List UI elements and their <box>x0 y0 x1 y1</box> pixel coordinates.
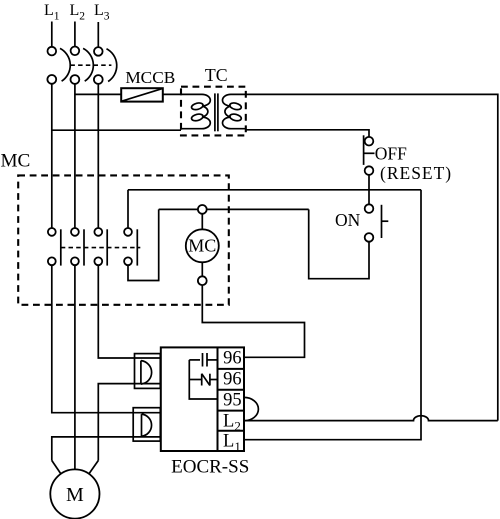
disconnect switch pole 2 terminals <box>71 47 80 84</box>
svg-text:MC: MC <box>188 236 216 256</box>
svg-text:MCCB: MCCB <box>125 68 175 87</box>
wire TC secondary top to right rail <box>246 94 498 420</box>
wire coil bottom to EOCR 96 terminal <box>202 285 304 357</box>
disconnect switch pole 3 terminals <box>94 47 103 84</box>
wire TC primary return to L1 <box>52 129 181 131</box>
jumper 95 to L2 (arc) <box>244 397 258 420</box>
wire terminal to coil <box>201 214 203 231</box>
disconnect switch pole 3 blade arc <box>107 49 117 82</box>
EOCR terminal box dividers <box>218 369 245 431</box>
pushbutton ON (NO) terminals <box>365 204 374 241</box>
pushbutton ON movable bar <box>381 205 383 238</box>
contactor MC main contact pole 2 <box>71 228 84 266</box>
wire CT1 return toward motor <box>98 384 161 461</box>
svg-text:96: 96 <box>223 348 242 368</box>
wire motor leg right <box>89 461 98 474</box>
disconnect switch pole 1 blade arc <box>60 48 70 81</box>
contactor MC main contact pole 1 <box>48 228 61 266</box>
wire MCCB to TC primary <box>163 93 181 95</box>
wire rail down to aux contact top <box>127 190 129 228</box>
coil MC (contactor coil) <box>186 229 219 262</box>
wire coil to bottom terminal <box>201 262 203 276</box>
pushbutton OFF (NC) terminals <box>365 137 374 175</box>
wire ON bottom to node B <box>309 209 369 278</box>
svg-text:96: 96 <box>223 370 242 390</box>
wire L1 phase down to MC contact <box>51 84 53 228</box>
current transformer CT1 body <box>135 354 161 389</box>
EOCR internal NC contact to 96 <box>189 374 217 386</box>
svg-text:95: 95 <box>223 391 242 411</box>
pushbutton OFF actuator tick <box>364 152 375 154</box>
disconnect switch mechanical link (dashed) <box>70 64 111 66</box>
wire motor leg left <box>52 461 61 474</box>
transformer TC enclosure (dashed) <box>181 87 246 136</box>
contactor MC mechanical link (dashed) <box>61 247 141 249</box>
current transformer CT2 body <box>133 408 160 441</box>
pushbutton OFF movable bar <box>363 135 365 165</box>
wire L2 tap to MCCB <box>75 93 121 95</box>
wire CT2 return toward motor <box>52 437 161 461</box>
wire L2 phase down to MC contact <box>74 84 76 228</box>
wire aux contact bottom to node B <box>128 209 159 280</box>
transformer TC primary winding <box>181 94 210 128</box>
disconnect switch pole 2 blade arc <box>83 48 93 81</box>
wire L1 terminal riser to control rail <box>244 190 421 440</box>
svg-text:OFF: OFF <box>375 143 407 163</box>
contactor MC enclosure (dashed) <box>18 175 229 304</box>
node coil top terminal <box>198 205 207 214</box>
relay EOCR-SS body <box>161 347 244 451</box>
svg-text:MC: MC <box>1 150 31 171</box>
wire L3 down through CT1 <box>98 265 161 358</box>
svg-text:TC: TC <box>205 65 228 85</box>
pushbutton ON actuator tick <box>382 220 389 222</box>
wire node B horizontal (coil top net) <box>159 208 309 210</box>
transformer TC core <box>215 93 218 131</box>
contactor MC main contact pole 3 <box>94 228 107 266</box>
transformer TC secondary winding <box>223 94 246 128</box>
EOCR terminal column divider <box>217 347 219 451</box>
wire L2 down to motor <box>74 265 76 469</box>
wire control rail node A <box>128 189 421 191</box>
wire OFF bottom to control rail <box>368 175 370 190</box>
svg-text:(RESET): (RESET) <box>380 163 452 183</box>
svg-text:ON: ON <box>335 210 361 230</box>
contactor MC auxiliary contact <box>124 228 137 266</box>
node coil bottom terminal <box>198 276 207 285</box>
motor M <box>50 469 99 518</box>
EOCR internal NO contact to 96 <box>189 353 217 367</box>
wire L3 phase down to MC contact <box>97 84 99 228</box>
wire TC secondary bottom to OFF button <box>246 130 369 137</box>
wire L2 terminal to right rail with hop over L1 riser <box>244 416 498 421</box>
disconnect switch pole 1 terminals <box>47 47 56 84</box>
wire rail to ON button <box>368 190 370 205</box>
EOCR internal common lead to 95 <box>189 360 217 399</box>
circuit breaker MCCB body <box>121 88 163 101</box>
wire L2 feed stub <box>74 22 76 47</box>
wire L1 down through CT2 <box>52 265 161 413</box>
svg-text:M: M <box>66 484 84 506</box>
wire L1 feed stub <box>51 22 53 47</box>
wire L3 feed stub <box>97 22 99 47</box>
svg-text:EOCR-SS: EOCR-SS <box>171 457 249 478</box>
